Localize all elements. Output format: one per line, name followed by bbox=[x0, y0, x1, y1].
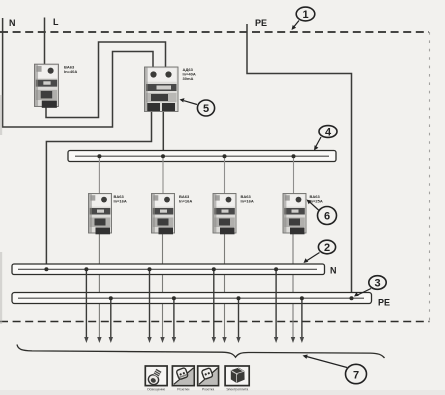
load group 2 PE wire bbox=[173, 298, 175, 337]
enclosure dashed border bottom bbox=[0, 321, 430, 323]
callout 7 bbox=[303, 355, 367, 384]
wire busbar4 through to breaker QF2 bbox=[162, 156, 164, 194]
svg-text:In=16A: In=16A bbox=[114, 199, 127, 204]
breaker QF2 bbox=[152, 194, 175, 235]
junction dot RCD N input on N bar bbox=[44, 267, 48, 271]
wire QF2 output down to load bbox=[162, 232, 164, 338]
load group 1 PE wire bbox=[110, 298, 112, 337]
wire RCD L output to busbar 4 bbox=[162, 111, 164, 151]
callout 4 bbox=[314, 126, 337, 151]
enclosure dashed border right bbox=[429, 32, 431, 322]
busbar 4 (L distribution) bbox=[68, 151, 336, 162]
icon lighting bbox=[145, 366, 167, 386]
wire QF4 output down to load bbox=[292, 232, 294, 338]
RCD U1 (2-pole) bbox=[145, 67, 179, 112]
arrowheads of load wires bbox=[84, 337, 304, 343]
callout 2 bbox=[304, 240, 336, 263]
breaker QF1 bbox=[89, 194, 112, 235]
load group 2 N wire bbox=[149, 269, 151, 337]
svg-text:6: 6 bbox=[324, 211, 330, 223]
svg-text:30mA: 30mA bbox=[183, 76, 194, 81]
wire L incoming into breaker Q1 bbox=[44, 18, 46, 67]
callout 5 bbox=[180, 98, 215, 116]
svg-text:2: 2 bbox=[324, 242, 330, 254]
breaker Q1 main switch bbox=[35, 64, 59, 108]
wire RCD N output to N busbar bbox=[46, 111, 151, 269]
svg-text:L: L bbox=[53, 17, 59, 27]
wire QF3 output down to load bbox=[224, 232, 226, 338]
svg-text:7: 7 bbox=[353, 370, 359, 382]
wire busbar4 to breaker QF4 bbox=[293, 156, 295, 194]
wire QF1 output down to load bbox=[98, 232, 100, 338]
svg-text:4: 4 bbox=[325, 127, 332, 139]
wire Q1 output loop to RCD top-right pin bbox=[46, 42, 166, 118]
brace grouping loads bbox=[17, 345, 385, 359]
breaker QF3 bbox=[213, 194, 236, 235]
svg-text:In=16A: In=16A bbox=[241, 199, 254, 204]
svg-text:In=16A: In=16A bbox=[179, 199, 192, 204]
wire busbar4 to breaker QF3 bbox=[224, 156, 226, 194]
callout 6 bbox=[307, 200, 337, 225]
scan edge artifacts bbox=[0, 95, 2, 135]
svg-text:In=40A: In=40A bbox=[64, 69, 77, 74]
svg-text:N: N bbox=[330, 266, 337, 276]
breaker QF4 bbox=[283, 194, 306, 235]
PE busbar bbox=[12, 293, 372, 304]
svg-text:1: 1 bbox=[302, 9, 308, 21]
junction dot PE feed on PE bar bbox=[350, 296, 354, 300]
svg-text:PE: PE bbox=[255, 18, 267, 28]
enclosure dashed border top bbox=[0, 31, 429, 33]
callout 1 bbox=[292, 7, 315, 30]
N busbar bbox=[12, 264, 325, 275]
icon socket 1 bbox=[172, 366, 194, 386]
callout 3 bbox=[354, 276, 386, 297]
svg-text:3: 3 bbox=[374, 278, 380, 290]
wire N incoming: down left edge, right, up, to RCD top-left pin bbox=[3, 18, 153, 127]
load group 4 PE wire bbox=[301, 298, 303, 337]
junction dots on busbar 4 bbox=[97, 154, 101, 158]
svg-text:N: N bbox=[9, 18, 16, 28]
load group 3 N wire bbox=[213, 269, 215, 337]
load group 1 N wire bbox=[85, 269, 87, 337]
load group 3 PE wire bbox=[238, 298, 240, 337]
load group 4 N wire bbox=[275, 269, 277, 337]
svg-text:5: 5 bbox=[203, 103, 209, 115]
svg-text:PE: PE bbox=[378, 298, 390, 308]
icon electric stove bbox=[225, 366, 249, 386]
icon socket 2 bbox=[198, 366, 219, 386]
svg-text:In=25A: In=25A bbox=[310, 199, 323, 204]
wire busbar4 to breaker QF1 bbox=[98, 156, 100, 194]
wire PE incoming: down, right, down to PE bar bbox=[247, 24, 352, 298]
